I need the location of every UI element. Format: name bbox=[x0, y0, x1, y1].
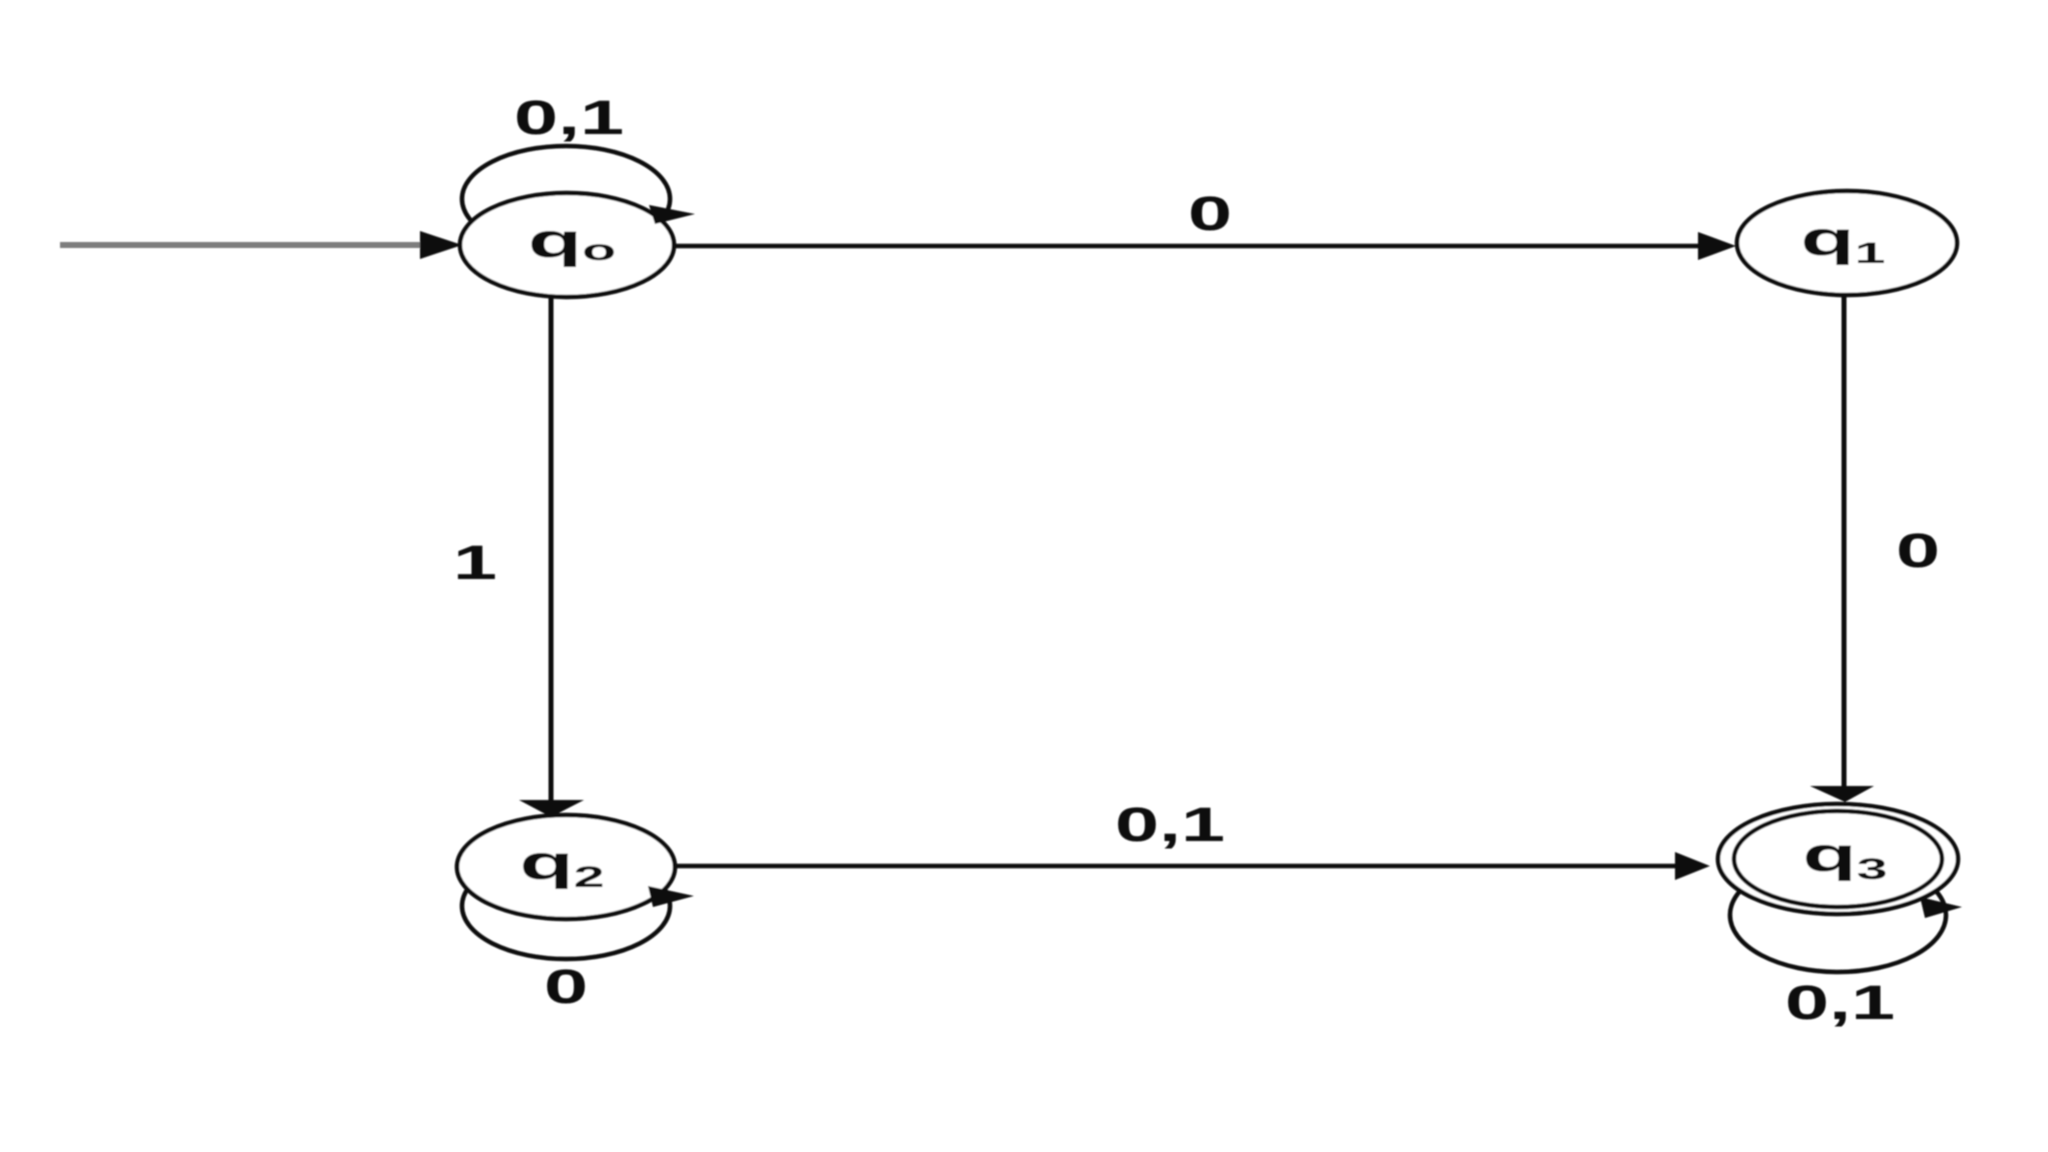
svg-text:1: 1 bbox=[453, 536, 497, 590]
svg-text:0: 0 bbox=[1896, 524, 1940, 578]
svg-text:0,1: 0,1 bbox=[514, 91, 624, 145]
svg-text:0,1: 0,1 bbox=[1115, 798, 1225, 852]
svg-text:0: 0 bbox=[1188, 187, 1232, 241]
svg-text:0,1: 0,1 bbox=[1785, 976, 1895, 1030]
svg-text:0: 0 bbox=[544, 960, 588, 1014]
